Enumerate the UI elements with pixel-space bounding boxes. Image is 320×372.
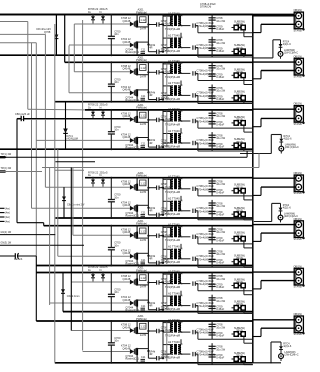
wire bus v x=82.6 long [82,20,84,351]
wire T4b primary leads [163,200,173,202]
svg-text:STANB: STANB [294,286,302,289]
transformer T3b [171,134,173,143]
svg-text:C11: C11 [141,49,146,52]
wire T3b secondary leads [178,133,181,135]
svg-text:C708(+)0.45uF: C708(+)0.45uF [197,69,215,73]
wire TP1 jog segment [55,161,95,163]
svg-text:A2 T7040: A2 T7040 [168,340,180,344]
svg-text:C11: C11 [141,356,146,359]
svg-text:D70+4(W)2(C4): D70+4(W)2(C4) [197,24,216,28]
transformer T6b [171,296,173,305]
wire sec return lower cell2 [198,103,253,105]
label Q71 box [140,323,146,329]
capacitor C411 marks [141,214,146,216]
wire LED LED-D branch [270,135,272,154]
wire right vertical bus [252,15,254,363]
capacitor C511 marks [141,261,146,263]
wire gate2 cell7 [83,351,130,353]
wire gate1 cell3 [18,118,130,120]
wire hcap to return T7b [197,354,199,365]
wire sec return upper cell4 [198,195,253,197]
wire to transformer T6a [162,283,164,284]
diode D71 [130,328,134,333]
wire pri feed cell5 [162,226,164,228]
svg-text:A2 T7040: A2 T7040 [168,318,180,322]
capacitor C603 [209,297,216,299]
capacitor C504 [209,258,216,260]
svg-text:10u 1W: 10u 1W [216,182,225,186]
svg-text:10n: 10n [114,290,119,294]
svg-text:(4w): (4w) [5,221,10,224]
wire T2a primary leads [163,63,173,65]
svg-text:(4w): (4w) [5,216,10,219]
wire stub y=34.4 [0,33,45,35]
capacitor C60 [108,293,115,295]
capacitor C703 [209,345,216,347]
wire hcap to return T6a [197,284,199,291]
wire T7a secondary leads [178,322,181,324]
svg-text:D70+4(W)2(C4): D70+4(W)2(C4) [197,304,216,308]
diode D30a [92,110,94,112]
wire hcap to return T2a [197,73,199,80]
wire Q71 source link [137,332,148,334]
svg-text:A2 T7040: A2 T7040 [168,81,180,85]
wire T7b secondary leads [178,344,181,346]
capacitor C101 [209,17,216,19]
wire gate1 cell6 [71,281,130,283]
capacitor C311 marks [141,145,146,147]
wire drain link cell2 lower [147,72,149,92]
svg-text:1.12: 1.12 [140,325,146,329]
wire sec return upper cell3 [198,127,253,129]
wire to transformer T1b [162,48,164,52]
wire bus v x=31.5 [31,43,33,209]
svg-text:(4C4(L)(M: (4C4(L)(M [67,138,78,141]
wire sec return lower cell3 [198,150,253,152]
svg-text:D70+4(W)2(C4): D70+4(W)2(C4) [197,209,216,213]
wire cap C10 vertical [110,15,112,37]
wire cell4 bottom rail [55,217,252,219]
capacitor C31a [192,119,194,123]
wire LED C ground [253,362,281,364]
wire sec output vertical T2b [211,85,213,104]
svg-text:0.45uF: 0.45uF [216,285,224,289]
wire drain link cell6 upper [147,273,149,283]
wire to J3 pin1 [253,108,296,110]
svg-text:(2W-(C)M+C: (2W-(C)M+C [285,146,299,149]
wire drain link cell6 lower [147,283,149,303]
svg-text:4R: 4R [149,353,152,356]
wire gray stub y=170.2 [55,169,84,171]
wire gate2 cell4 [32,207,130,209]
wire sec output vertical T4b [211,200,213,220]
wire +12V top rail [0,14,294,16]
svg-text:R(wire)|C11: R(wire)|C11 [125,213,139,217]
wire drain link cell7 upper [147,321,149,331]
capacitor C104 [209,47,216,49]
wire to transformer T5b [162,259,164,263]
svg-text:A2 T7040: A2 T7040 [168,269,180,273]
svg-text:4(2)1-6: 4(2)1-6 [283,207,292,210]
offpage stubs band y=208-221 [0,207,5,209]
svg-text:D70+4(W)2(C4): D70+4(W)2(C4) [197,94,216,98]
connector J2 [294,58,303,75]
jumper F6b [234,306,238,311]
svg-text:1A7R: 1A7R [140,122,147,126]
wire to J5 pin1 [253,224,296,226]
wire pri gray vertical cell6 [166,274,168,310]
junction dots cell1 [110,14,112,16]
wire drain link cell7 lower [147,331,149,351]
svg-text:10n: 10n [114,339,119,343]
wire stub y=42.7 [0,42,36,44]
wire sec output vertical T7b [211,343,213,364]
svg-text:1A7R: 1A7R [140,190,147,194]
capacitor C701 [209,323,216,325]
diode D22 [130,90,134,95]
wire Q61 source link [137,284,148,286]
capacitor C71a [192,330,194,334]
capacitor C21b [192,93,194,97]
svg-text:0.45uF: 0.45uF [216,145,224,149]
transistor Q31 [134,116,136,122]
jumper F3a [234,121,238,126]
capacitor C12b [148,51,156,53]
svg-text:TP(1) 1W: TP(1) 1W [1,153,12,156]
capacitor C302 [209,121,216,123]
wire sec output vertical T4a [211,178,213,196]
transistor Q71 [134,327,136,333]
wire T2b primary leads [163,85,173,87]
wire LED LED-C branch [270,342,272,363]
wire gate1 cell4 [45,186,129,188]
svg-text:Q4148: Q4148 [123,325,131,329]
svg-text:OB(1N): OB(1N) [294,9,303,12]
svg-text:STANB: STANB [294,29,302,32]
wire to transformer T1a [162,25,164,26]
junction dots cell2 [110,61,112,63]
wire pri gray vertical cell2 [166,64,168,100]
svg-text:D70+4(W)2(C4): D70+4(W)2(C4) [197,72,216,76]
diode LED-C series [280,342,282,346]
wire T3a secondary leads [178,111,181,113]
capacitor C102 [209,25,216,27]
wire T4a secondary leads [178,178,181,180]
diode D7x4 on x=64 [62,197,66,201]
wire T7a primary leads [163,322,173,324]
LED LED-A [278,52,283,57]
wire cap C50 vertical [110,226,112,248]
svg-text:10u 1W: 10u 1W [216,204,225,208]
svg-text:0.45uF: 0.45uF [216,190,224,194]
diode D51 [130,233,134,238]
diode D10b [102,15,104,17]
svg-text:A2 T7040: A2 T7040 [168,291,180,295]
diode LED-D series [280,135,282,139]
wire pri feed cell6 [162,273,164,275]
wire bus v x=57.8 [57,149,59,256]
wire hcap to return T6b [197,306,199,314]
wire T4b secondary leads [178,200,181,202]
transistor Q41 [134,184,136,190]
wire stub y=234.6 [0,234,55,236]
svg-text:0.45uF: 0.45uF [216,356,224,360]
svg-text:C708(+)0.45uF: C708(+)0.45uF [197,206,215,210]
diode D11 [130,22,134,27]
wire T6a secondary leads [178,273,181,275]
jumper F4b [234,212,238,217]
label Q21 box [140,65,146,71]
transistor Q72 [134,348,136,354]
wire sec return upper cell5 [198,243,253,245]
wire pri gray vertical cell5 [166,227,168,264]
wire to transformer T7a [162,331,164,332]
capacitor C502 [209,236,216,238]
capacitor C51a [192,235,194,239]
wire cell1 bottom rail [0,54,253,56]
capacitor C11a [192,23,194,27]
transistor Q32 [134,137,136,143]
label Q11 box [140,17,146,23]
svg-text:1A7R: 1A7R [140,238,147,242]
capacitor C9y [14,253,16,259]
wire pri feed cell3 [162,110,164,112]
wire to J7 pin2 [261,327,296,329]
wire drain link cell1 lower [147,25,149,45]
capacitor C604 [209,305,216,307]
wire to transformer T3a [162,120,164,121]
svg-text:Q4148: Q4148 [123,230,131,234]
svg-text:1A7R: 1A7R [140,333,147,337]
svg-text:C708(+)0.45uF: C708(+)0.45uF [197,232,215,236]
transformer T2b [171,86,173,96]
wire cell1 top rail [0,14,253,16]
svg-text:C708(+)0.45uF: C708(+)0.45uF [197,21,215,25]
capacitor C42a [148,187,156,189]
svg-text:1.12: 1.12 [140,18,146,22]
diode D40a [92,178,94,180]
svg-text:0.45uF: 0.45uF [216,260,224,264]
svg-text:Q4148: Q4148 [123,346,131,350]
junction dots cell4 [110,177,112,179]
LED LED-B [278,215,283,220]
wire hcap to return T4a [197,189,199,196]
wire gate1 cell2 [74,71,130,73]
svg-text:1.12: 1.12 [140,66,146,70]
transformer T4a [171,179,173,188]
wire cell2 top rail [65,61,253,63]
svg-text:C708(+)0.45uF: C708(+)0.45uF [197,279,215,283]
svg-text:1.12: 1.12 [140,229,146,233]
junction dots cell3 [110,109,112,111]
wire bus v x=54.8 long [54,24,56,363]
capacitor C71b [192,352,194,356]
wire hcap to return T5b [197,259,199,268]
svg-text:A2 T7040: A2 T7040 [168,197,180,201]
jumper F2b [234,96,238,101]
wire cell5 top rail [44,225,253,227]
wire to transformer T4a [162,188,164,189]
junction dots cell7 [110,320,112,322]
capacitor C304 [209,143,216,145]
wire drain link cell5 upper [147,226,149,236]
wire cell4 top rail [85,177,253,179]
diode D6x on x=63 [61,289,65,293]
jumper F7b [234,357,238,362]
LED LED-D [279,146,284,151]
wire long gray y=167.5 [42,167,259,169]
capacitor C301 [209,112,216,114]
wire bus v x=17 mid [16,119,18,223]
wire T1a primary leads [163,15,173,17]
junction dots cell6 [110,272,112,274]
diode D7C1 on x=65.5 [63,129,68,134]
connector J4 [294,175,303,192]
svg-text:Q4148: Q4148 [123,251,131,255]
connector J5 [294,221,303,238]
diode D31 [130,117,134,122]
svg-text:4(2)1-6: 4(2)1-6 [283,345,292,348]
svg-text:1.12: 1.12 [140,181,146,185]
transistor Q42 [134,205,136,211]
diode D60a [92,273,94,275]
wire stub y=256 with cap [0,255,15,257]
transformer T1b [171,38,173,48]
wire sec return upper cell2 [198,80,253,82]
svg-text:4(2)1-6: 4(2)1-6 [283,43,292,46]
svg-text:D70+4(W)2(C4): D70+4(W)2(C4) [197,120,216,124]
wire Q12 drain link [137,41,148,43]
svg-text:R(wire)|C11: R(wire)|C11 [125,357,139,361]
wire sec output vertical T1a [211,15,213,33]
wire bus v x=64.7 upper [64,15,66,63]
svg-text:GN(3) 1W: GN(3) 1W [1,242,12,245]
connector J1 [294,12,303,29]
svg-text:D70+4(W)2(C4): D70+4(W)2(C4) [197,46,216,50]
wire T2a secondary leads [178,63,181,65]
svg-text:C11: C11 [141,259,146,262]
wire gate1 cell7 [71,330,130,332]
capacitor C22b [148,99,156,101]
wire sec output vertical T6b [211,295,213,314]
svg-text:10u 1W: 10u 1W [216,89,225,93]
svg-text:STANB: STANB [294,123,302,126]
diode D60b [102,273,104,275]
wire sec output vertical T5b [211,248,213,267]
capacitor C52a [148,235,156,237]
svg-text:C708(+)0.45uF: C708(+)0.45uF [197,254,215,258]
wire T5b secondary leads [178,248,181,250]
transistor Q62 [134,300,136,306]
wire bus v x=45.4 [44,34,46,187]
svg-text:TP(2) 1W: TP(2) 1W [1,167,12,170]
diode D62 [130,301,134,306]
svg-text:10u 1W: 10u 1W [216,67,225,71]
wire to J4 pin2 [261,186,296,188]
capacitor C12a [148,24,156,26]
svg-text:R(wire)|C11: R(wire)|C11 [125,308,139,312]
wire T5a secondary leads [178,226,181,228]
wire pri gray vertical cell1 [166,16,168,54]
wire drain link cell3 upper [147,110,149,120]
svg-text:Q4148: Q4148 [123,40,131,44]
wire Q11 source link [137,26,148,28]
svg-text:STANB: STANB [294,192,302,195]
wire bus v x=71.3 [70,168,72,331]
wire sec return lower cell1 [198,56,253,58]
svg-text:STANB: STANB [294,238,302,241]
wire sec output vertical T2a [211,62,213,80]
wire drain link cell1 upper [147,15,149,25]
diode D10a [92,15,94,17]
wire hcap to return T3a [197,121,199,128]
svg-text:STANB: STANB [294,333,302,336]
wire sec output vertical T3b [211,132,213,151]
svg-text:OB(1N): OB(1N) [294,172,303,175]
svg-text:R(wire)|C11: R(wire)|C11 [125,98,139,102]
wire cell5 bottom rail [36,265,253,267]
wire bus v x=63 [62,273,64,312]
wire to J2 pin1 [253,61,296,63]
wire sec output vertical T7a [211,321,213,339]
svg-text:(2W-(C)M+C: (2W-(C)M+C [284,215,298,218]
capacitor C20 [108,83,115,85]
wire to transformer T7b [162,354,164,358]
capacitor C42b [148,214,156,216]
wire hcap to return T2b [197,95,199,103]
svg-text:D70+4(W)2(C4): D70+4(W)2(C4) [197,282,216,286]
svg-text:C708(+)0.45uF: C708(+)0.45uF [197,43,215,47]
capacitor C401 [209,180,216,182]
wire stub y=245.3 [0,244,84,246]
svg-text:Q708: Q708 [44,30,51,34]
wire to transformer T2a [162,72,164,73]
jumper F1b [234,49,238,54]
wire bus v x=27.8 [27,22,29,110]
wire cap C60 vertical [110,273,112,295]
offpage stub TP1 [0,156,7,158]
wire pri gray vertical cell3 [166,111,168,147]
wire cell2 bottom rail [55,101,253,103]
wire sec output vertical T6a [211,273,213,291]
svg-text:A2 T7040: A2 T7040 [168,11,180,15]
transformer T5b [170,249,173,258]
svg-text:10u 1W: 10u 1W [216,252,225,256]
wire sec return lower cell6 [198,312,253,314]
svg-text:STANB: STANB [294,76,302,79]
transistor Q21 [134,69,136,75]
wire gate2 cell2 [69,92,130,94]
wire Q52 drain link [137,252,148,254]
wire stub y=21.5 [0,21,28,23]
wire bus v x=72.9 [72,168,74,236]
label Q41 box [140,180,146,186]
svg-text:OB(1N): OB(1N) [294,265,303,268]
svg-text:C708(+)0.45uF: C708(+)0.45uF [197,184,215,188]
capacitor C602 [209,283,216,285]
transformer T6a [171,274,173,283]
capacitor C702 [209,332,216,334]
wire gate1 cell5 [73,234,130,236]
svg-text:4R: 4R [149,142,152,145]
svg-text:Q4148: Q4148 [123,298,131,302]
capacitor C204 [209,95,216,97]
wire to J2 pin2 [261,70,296,72]
wire drain link cell4 upper [147,178,149,188]
wire hcap to return T4b [197,211,199,220]
diode LED-B series [280,203,282,207]
diode D700 on x=56.4 [54,35,58,39]
